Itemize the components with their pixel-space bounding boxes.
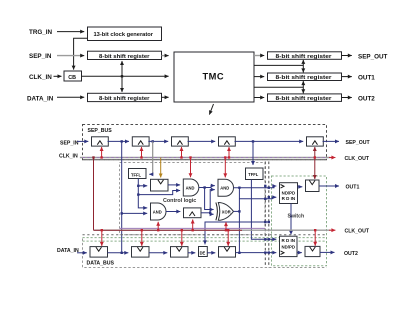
clock stub up to S4 — [228, 147, 230, 158]
gate AND1 — [183, 179, 199, 196]
control box bottom dashed — [83, 234, 327, 236]
block 8-bit shift register (right 2) — [268, 73, 342, 81]
svg-text:8-bit shift register: 8-bit shift register — [276, 75, 333, 81]
wire TMC to vertical link 2 — [254, 86, 303, 88]
wire D2 to D3 — [149, 252, 167, 254]
clock stub down to D3 — [181, 230, 183, 246]
wire DE to D4 — [207, 252, 215, 254]
wire AND1 junction down to XOR input1 — [205, 188, 214, 210]
clock stub up to S3 — [181, 147, 183, 158]
vertical feedback wire x239.4 — [238, 188, 240, 253]
svg-text:8-bit shift register: 8-bit shift register — [99, 96, 150, 102]
tap wire to TFFL1 — [151, 141, 153, 174]
wire TMC to vertical link 1 — [254, 64, 303, 66]
clock stub up to S1 — [101, 147, 103, 158]
flip-flop OUT2 (falling edge) — [305, 246, 320, 256]
clock stub up to FF3 — [192, 220, 194, 231]
junction clock/vertical — [121, 75, 123, 77]
svg-text:Switch: Switch — [288, 214, 305, 220]
wire AND3 to switch1 — [234, 186, 277, 188]
block 8-bit shift register (right 3) — [268, 94, 342, 102]
block CB — [64, 71, 82, 81]
wire junction up to AND3 input2 — [210, 190, 215, 213]
clock stub up to XOR — [225, 222, 227, 230]
wire AND2 to FF3 — [166, 211, 180, 213]
flip-flop D2 (falling edge) — [132, 247, 150, 258]
long tap vertical x121.7 — [121, 141, 123, 252]
svg-text:TRG_IN: TRG_IN — [29, 29, 53, 36]
svg-text:TFFL: TFFL — [131, 172, 142, 177]
flip-flop FF3 (rising edge) — [184, 208, 202, 218]
clock stub down to VFF (orange) — [160, 158, 162, 178]
svg-text:DATA_IN: DATA_IN — [27, 95, 54, 102]
flip-flop S1 (SEP bus) — [92, 137, 109, 146]
wire S4 to S5 — [235, 140, 304, 142]
wire register2 to OUT1 — [342, 76, 352, 78]
block DE — [199, 247, 208, 257]
wire clock generator to CB — [74, 38, 88, 69]
wire S3 to S4 — [188, 140, 216, 142]
junction tap on data wire — [121, 252, 123, 254]
wire branch to bus — [239, 221, 268, 223]
svg-text:OUT2: OUT2 — [358, 95, 375, 102]
block TFFL1 — [129, 169, 147, 179]
violet wire — [120, 227, 266, 229]
wire junction to XOR input2 — [210, 213, 213, 215]
wire DATA_IN to shift register — [57, 96, 84, 98]
wire CLK line (gray, upper) — [80, 157, 331, 159]
clock stub down to OUT2 FF — [314, 230, 316, 246]
wire to AND1 input 2 — [138, 191, 180, 195]
flip-flop S4 (SEP bus) — [219, 137, 236, 146]
wire shift register to TMC (sep) — [162, 55, 167, 57]
wire switch1 to OUT1 FF — [298, 186, 303, 188]
wire TFFL1 to VFF — [138, 185, 147, 187]
svg-text:SEP_OUT: SEP_OUT — [346, 140, 371, 146]
wire TFFL2 output to switch2 — [251, 180, 276, 240]
svg-text:OUT2: OUT2 — [344, 251, 358, 257]
block 13-bit clock generator — [88, 27, 162, 41]
svg-text:CB: CB — [68, 75, 76, 81]
svg-text:R D IN: R D IN — [282, 238, 296, 243]
svg-text:AND: AND — [153, 209, 162, 214]
wire SEP_IN into FF1 — [77, 140, 88, 142]
wire TFFL1 output chain — [138, 179, 147, 208]
wire S5 to SEP_OUT — [323, 140, 340, 142]
gate AND3 — [218, 179, 234, 196]
svg-text:TFFL: TFFL — [248, 172, 259, 177]
wire S1 to S2 — [108, 140, 130, 142]
wire VFF to AND1 — [168, 184, 180, 186]
block TMC — [174, 52, 254, 102]
wire CB to TMC — [82, 75, 169, 77]
svg-text:ND/PD: ND/PD — [282, 244, 296, 249]
maroon branch down-left — [93, 158, 95, 231]
svg-text:AND: AND — [186, 185, 195, 190]
svg-text:R D IN: R D IN — [282, 196, 296, 201]
flip-flop S2 (SEP bus) — [132, 137, 149, 146]
wire TMC to register 3 — [254, 97, 264, 99]
junction tap on AND2 input — [121, 212, 123, 214]
SEP_BUS bottom dashed border — [83, 159, 327, 161]
bus junction dots — [264, 185, 270, 254]
wire SEP_IN to shift register (gray) — [57, 55, 83, 57]
wire shift register to TMC (data) — [162, 96, 169, 98]
wire switch1 bottom to switch2 top — [290, 204, 292, 235]
svg-text:XOR: XOR — [222, 209, 231, 214]
clock stub down to D2 — [141, 230, 143, 246]
switch block 2 — [280, 236, 298, 256]
clock stub up to AND2 — [157, 222, 159, 230]
svg-text:SEP_BUS: SEP_BUS — [88, 128, 113, 134]
DATA_BUS dashed border — [83, 239, 327, 268]
clock stub down to AND3 — [224, 158, 226, 178]
wire CLK line 2 (gray, lower) — [94, 229, 331, 231]
svg-text:Control logic: Control logic — [163, 198, 196, 204]
svg-text:DE: DE — [200, 250, 206, 255]
flip-flop D1 (falling edge) — [90, 247, 108, 258]
flip-flop S3 (SEP bus) — [172, 137, 189, 146]
svg-text:CLK_IN: CLK_IN — [29, 74, 52, 81]
junction tap x253 — [252, 140, 254, 142]
wire register3 to OUT2 — [342, 97, 352, 99]
flip-flop D3 (falling edge) — [171, 247, 189, 258]
svg-text:TMC: TMC — [203, 72, 225, 82]
wire CLK_OUT arrow (upper) — [329, 157, 335, 159]
svg-text:8-bit shift register: 8-bit shift register — [276, 96, 333, 102]
svg-text:OUT1: OUT1 — [346, 184, 360, 190]
green dashed line 2 — [83, 240, 327, 242]
arrow TMC to detail diagram — [209, 104, 213, 115]
wire CLK_IN to CB — [54, 75, 62, 77]
bus boundary dashed vertical 2 — [268, 162, 270, 268]
svg-text:DATA_BUS: DATA_BUS — [87, 260, 115, 266]
flip-flop S5 (SEP bus) — [307, 137, 324, 146]
wire S2 to S3 — [148, 140, 168, 142]
block TFFL2 — [246, 168, 264, 180]
wire bidirectional between left shift registers — [121, 61, 123, 92]
gate AND2 — [151, 203, 167, 220]
flip-flop VFF (falling edge) — [151, 179, 169, 191]
svg-text:SEP_OUT: SEP_OUT — [358, 53, 388, 60]
tap wire to TFFL2 — [252, 141, 254, 165]
green dashed line 1 — [83, 237, 327, 239]
junction tap x152.7 — [152, 140, 154, 142]
svg-text:13-bit clock generator: 13-bit clock generator — [94, 32, 154, 38]
wire XOR output to vertical — [234, 210, 240, 212]
switch block 1 — [280, 183, 298, 204]
wire OUT1 FF output — [319, 185, 339, 187]
junction tap x121.7 — [121, 140, 123, 142]
svg-text:8-bit shift register: 8-bit shift register — [99, 54, 150, 60]
switch dashed green box — [272, 176, 327, 266]
svg-text:CLK_OUT: CLK_OUT — [345, 156, 370, 162]
clock stub up to S2 — [141, 147, 143, 158]
clock stub down to D4 — [227, 230, 229, 246]
wire TMC to register 1 — [254, 55, 262, 57]
wire AND1 output — [199, 186, 215, 188]
svg-text:OUT1: OUT1 — [358, 74, 375, 81]
wire CLK_OUT arrow (lower) — [329, 229, 335, 231]
control logic dashed box — [120, 163, 266, 235]
wire D4 to switch2 — [236, 252, 277, 254]
svg-text:CLK_OUT: CLK_OUT — [345, 229, 370, 235]
flip-flop D4 (falling edge) — [219, 247, 236, 258]
svg-text:DATA_IN: DATA_IN — [57, 248, 79, 254]
svg-text:SEP_IN: SEP_IN — [60, 140, 79, 146]
wire DATA_IN into D1 — [77, 252, 87, 254]
clock stub down to D1 — [101, 230, 103, 246]
wire bidirectional register1-register2 — [302, 60, 304, 73]
flip-flop OUT1 (falling edge) — [306, 180, 320, 192]
SEP_BUS dashed box — [83, 125, 327, 160]
wire TRG_IN to clock generator — [57, 31, 84, 33]
wire register1 to SEP_OUT — [342, 55, 352, 57]
violet dashed overlay on CLK line — [83, 157, 327, 159]
wire D3 to DE — [188, 252, 195, 254]
wire top branch to switch1 input2 — [239, 197, 276, 199]
svg-text:SEP_IN: SEP_IN — [29, 53, 52, 60]
wire bidirectional register2-register3 — [302, 81, 304, 93]
wire OUT2 FF output — [320, 251, 335, 253]
wire loop branch to DE — [205, 222, 239, 244]
clock stub down to AND1 — [190, 158, 192, 178]
wire TMC to register 2 — [254, 76, 264, 78]
block 8-bit shift register (right 1) — [268, 52, 342, 60]
wire AND2 input from tap — [122, 212, 148, 214]
svg-text:AND: AND — [220, 186, 229, 191]
wire FF3 output to junction — [201, 212, 210, 214]
wire switch2 to OUT2 FF — [297, 252, 302, 254]
block 8-bit shift register (left bottom) — [88, 93, 162, 101]
clock double arrow S5 / OUT1 FF — [314, 147, 316, 179]
maroon overlay on CLK line 2 — [94, 229, 243, 231]
bus boundary dashed vertical 1 — [264, 162, 266, 268]
gate XOR — [216, 203, 234, 221]
svg-text:CLK_IN: CLK_IN — [59, 154, 78, 160]
block 8-bit shift register (left top) — [88, 51, 162, 59]
wire D1 to D2 — [108, 252, 129, 254]
svg-text:8-bit shift register: 8-bit shift register — [276, 54, 333, 60]
